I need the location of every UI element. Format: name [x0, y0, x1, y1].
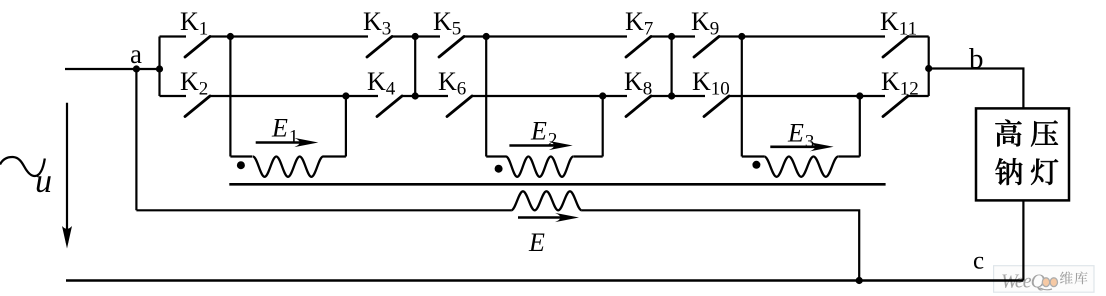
wire bottom rail K2 lead	[160, 95, 187, 97]
AC source sine symbol	[0, 157, 45, 176]
switch K6 blade	[447, 96, 472, 117]
switch K8 blade	[626, 96, 651, 117]
wire bottom rail to b corner	[908, 95, 929, 97]
wire E2 left lead	[485, 37, 487, 157]
wire bottom rail K8 to K10	[651, 95, 705, 97]
wire vertical link K3/K4	[414, 37, 416, 97]
wire top rail to b corner	[908, 35, 929, 37]
node b junction dot	[925, 65, 932, 72]
junction dot E3 left tap	[738, 33, 745, 40]
watermark box	[994, 266, 1094, 293]
polarity dot E3	[752, 161, 760, 169]
wire E2 right lead	[602, 96, 604, 157]
svg-text:u: u	[35, 163, 52, 200]
wire vertical link K9/K10	[670, 37, 672, 97]
polarity dot E1	[237, 161, 245, 169]
wire bracket at a	[158, 37, 160, 97]
label 钠灯	[995, 158, 1058, 185]
junction dot E1 left tap	[227, 33, 234, 40]
junction dot E2 right tap	[599, 92, 606, 99]
wire E baseline left	[136, 209, 511, 211]
switch K12 blade	[883, 96, 908, 117]
svg-text:b: b	[969, 43, 984, 75]
switch K5 blade	[439, 37, 464, 58]
polarity dot E2	[495, 165, 503, 173]
arrow E3	[770, 146, 819, 149]
arrow E2	[509, 144, 558, 147]
junction dot interlink2 bottom	[668, 92, 675, 99]
inductor winding E1	[230, 155, 252, 157]
wire lamp bottom lead	[1022, 200, 1024, 280]
junction dot interlink2 left	[668, 33, 675, 40]
node a junction dot	[133, 65, 140, 72]
switch K10 blade	[704, 96, 729, 117]
primary winding E	[511, 191, 582, 210]
lamp box	[976, 108, 1069, 200]
switch K3 blade	[367, 37, 392, 58]
wire top rail K7 to K9	[651, 35, 695, 37]
svg-text:c: c	[973, 248, 984, 275]
svg-text:E: E	[528, 228, 545, 257]
voltage arrow u	[66, 103, 68, 243]
wire top rail K5 to K7	[464, 35, 627, 37]
switch K9 blade	[694, 37, 719, 58]
wire source to node a	[65, 68, 160, 70]
wire bottom rail K10 to K12	[729, 95, 885, 97]
watermark WeeQoo text	[1001, 271, 1058, 293]
wire bottom rail K2 to K4	[210, 95, 378, 97]
node a branch dot	[156, 65, 163, 72]
wire top rail K3 to K5	[392, 35, 440, 37]
switch K11 blade	[883, 37, 908, 58]
switch K4 blade	[377, 96, 402, 117]
inductor winding E2	[486, 155, 506, 157]
arrow E	[518, 216, 565, 219]
wire E1 right lead	[345, 96, 347, 157]
wire E1 left lead	[229, 37, 231, 157]
wire E3 left lead	[741, 37, 743, 157]
junction dot E1 right tap	[342, 92, 349, 99]
switch K7 blade	[626, 37, 651, 58]
junction dot interlink bottom	[412, 92, 419, 99]
magnetic core line	[229, 183, 885, 186]
switch K1 blade	[185, 37, 210, 58]
junction dot bottom rail	[856, 277, 863, 284]
wire E3 right lead	[859, 96, 861, 157]
wire node b to lamp	[929, 69, 1024, 109]
inductor winding E3	[742, 155, 765, 157]
junction dot interlink left	[412, 33, 419, 40]
arrow E1	[256, 141, 305, 144]
wire bottom rail K6 to K8	[472, 95, 627, 97]
label 高压	[995, 119, 1058, 146]
switch K2 blade	[185, 96, 210, 117]
junction dot E2 left tap	[483, 33, 490, 40]
wire bottom return rail	[66, 279, 1023, 282]
wire top rail K9 to K11	[719, 35, 885, 37]
wire a down to E winding	[135, 69, 137, 210]
wire top rail K1 to K3	[210, 35, 368, 37]
wire top rail K1 lead	[160, 35, 187, 37]
svg-text:a: a	[130, 39, 142, 69]
wire E baseline right to bottom rail	[582, 210, 860, 280]
wire bottom rail K4 to K6	[402, 95, 448, 97]
watermark 维库 text	[1060, 271, 1088, 284]
wire vertical at node b	[928, 37, 930, 97]
junction dot E3 right tap	[856, 92, 863, 99]
